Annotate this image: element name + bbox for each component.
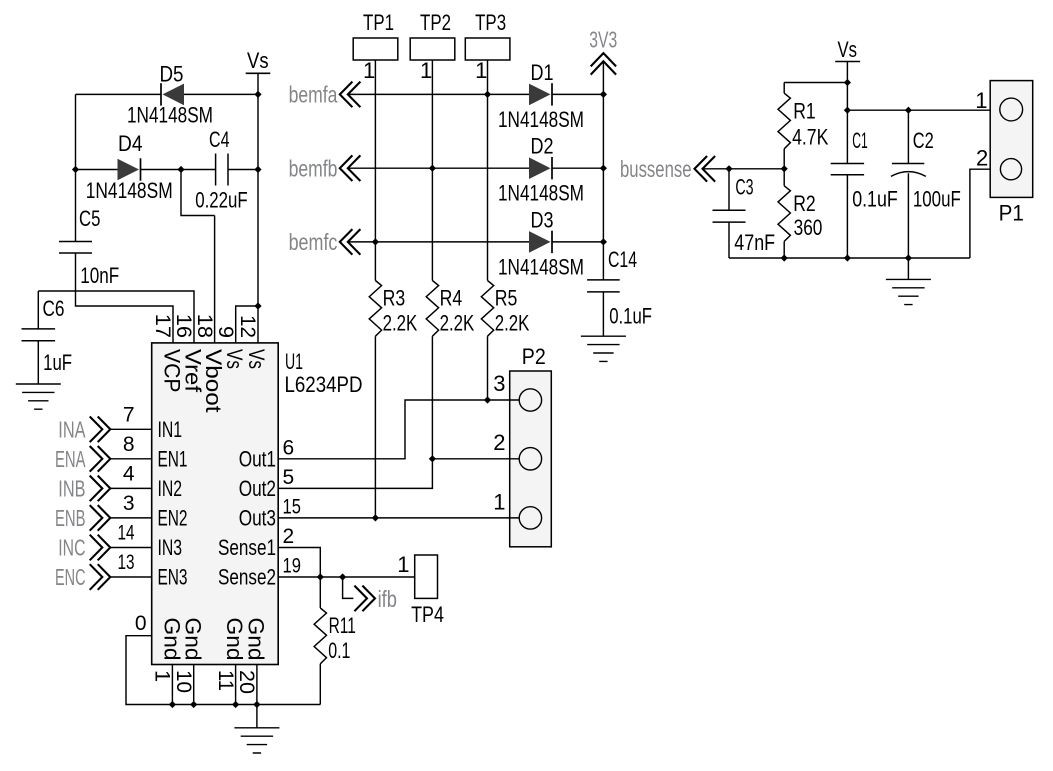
- svg-text:5: 5: [283, 466, 295, 489]
- wire bemfc row right: [552, 241, 603, 243]
- svg-text:8: 8: [123, 433, 135, 456]
- svg-text:C1: C1: [852, 128, 868, 153]
- svg-text:7: 7: [123, 403, 135, 426]
- svg-text:Sense1: Sense1: [218, 535, 276, 560]
- wire 3V3 vertical: [602, 61, 604, 280]
- svg-text:1uF: 1uF: [43, 350, 72, 375]
- svg-text:0.1uF: 0.1uF: [609, 304, 652, 329]
- junction Vs/C4: [254, 166, 261, 173]
- ground (right): [886, 279, 931, 304]
- P2 pin 3 circle: [519, 389, 541, 411]
- svg-text:19: 19: [283, 555, 301, 578]
- svg-text:17: 17: [151, 314, 174, 338]
- svg-text:Gnd: Gnd: [222, 618, 247, 661]
- svg-text:Vs: Vs: [247, 48, 269, 73]
- junction Vs/P1 row: [844, 107, 851, 114]
- svg-text:4.7K: 4.7K: [792, 125, 829, 150]
- svg-text:D1: D1: [531, 60, 554, 85]
- wire R3 to Out3 row: [374, 336, 376, 518]
- resistor R2: [778, 186, 790, 242]
- svg-text:EN3: EN3: [158, 565, 188, 590]
- svg-text:1N4148SM: 1N4148SM: [86, 178, 173, 203]
- svg-text:D5: D5: [160, 62, 184, 87]
- svg-text:R3: R3: [383, 286, 406, 311]
- svg-text:Sense2: Sense2: [218, 565, 276, 590]
- svg-text:0: 0: [135, 612, 147, 635]
- wire INB to IC: [110, 487, 151, 489]
- svg-text:U1: U1: [285, 349, 303, 374]
- wire C3 top: [728, 169, 730, 211]
- svg-text:3: 3: [493, 371, 505, 396]
- svg-text:INC: INC: [58, 535, 85, 561]
- port INA: [90, 417, 111, 443]
- test point TP4: [415, 555, 438, 598]
- svg-text:1: 1: [475, 58, 487, 83]
- wire D5 to Vs: [184, 93, 258, 95]
- wire ENB to IC: [110, 517, 151, 519]
- capacitor C6: [22, 329, 56, 341]
- svg-text:L6234PD: L6234PD: [285, 372, 363, 397]
- power symbol 3V3: [591, 53, 616, 75]
- svg-text:bemfc: bemfc: [289, 229, 338, 255]
- junction 3V3/bemfb: [600, 165, 607, 172]
- junction Gnd pin10: [190, 701, 197, 708]
- wire C2 top: [907, 110, 909, 163]
- wire Vs vertical to pin 12: [257, 73, 259, 343]
- junction Vs/D5: [254, 91, 261, 98]
- svg-text:100uF: 100uF: [913, 187, 961, 212]
- junction R5/P2 pin3: [484, 396, 491, 403]
- junction Vboot branch: [177, 166, 184, 173]
- junction bemfb/TP2: [429, 165, 436, 172]
- wire to R11: [319, 577, 321, 608]
- svg-text:TP2: TP2: [420, 10, 451, 35]
- P1 pin 1 circle: [1000, 98, 1023, 121]
- svg-text:13: 13: [118, 551, 135, 574]
- svg-text:C4: C4: [209, 127, 230, 152]
- wire C6 to pin 16 Vref: [38, 291, 194, 343]
- port bussense: [695, 156, 716, 182]
- wire D4 to C4: [141, 169, 216, 171]
- wire Vs down to C1: [846, 62, 848, 164]
- svg-text:20: 20: [235, 670, 258, 694]
- svg-text:C5: C5: [79, 206, 100, 231]
- junction C2/rail: [905, 254, 912, 261]
- svg-text:12: 12: [236, 315, 259, 338]
- svg-text:2.2K: 2.2K: [383, 311, 418, 336]
- wire Sense2 to TP4: [278, 576, 415, 578]
- svg-text:14: 14: [118, 522, 135, 545]
- wire R11 to ground rail: [319, 664, 321, 705]
- svg-text:Gnd: Gnd: [243, 618, 268, 661]
- junction Sense1/Sense2: [317, 573, 324, 580]
- svg-text:D4: D4: [118, 131, 143, 156]
- wire R5 to Out1 row: [487, 336, 489, 400]
- svg-text:P2: P2: [522, 344, 546, 369]
- port bemfb: [340, 155, 361, 181]
- svg-text:TP4: TP4: [411, 602, 444, 627]
- wire R1 to bussense: [783, 149, 785, 169]
- svg-text:360: 360: [794, 215, 823, 240]
- svg-text:INA: INA: [58, 416, 85, 442]
- svg-text:ifb: ifb: [378, 586, 397, 612]
- svg-text:P1: P1: [999, 201, 1024, 226]
- svg-text:1: 1: [420, 58, 432, 83]
- capacitor C14: [587, 280, 620, 292]
- power symbol Vs (left): [246, 72, 271, 74]
- connector P1 body: [990, 81, 1032, 198]
- junction Gnd pin20: [253, 701, 260, 708]
- test point TP1: [353, 38, 398, 60]
- wire Out2 to P2 pin 2: [278, 459, 519, 489]
- junction C3: [725, 165, 732, 172]
- port bemfa: [340, 82, 361, 108]
- svg-text:1: 1: [397, 552, 409, 577]
- svg-text:C14: C14: [608, 247, 637, 272]
- wire Gnd pin 11: [235, 665, 237, 705]
- svg-text:1: 1: [151, 670, 174, 682]
- junction Vs/R1: [844, 79, 851, 86]
- capacitor C2 (electrolytic): [891, 164, 926, 177]
- ground (under C14): [581, 336, 626, 361]
- wire TP3 column: [487, 60, 489, 281]
- svg-text:1N4148SM: 1N4148SM: [498, 107, 584, 132]
- wire rail to ground: [907, 258, 909, 279]
- svg-text:EN2: EN2: [158, 505, 188, 530]
- wire ENC to IC: [110, 576, 151, 578]
- junction ifb branch: [339, 573, 346, 580]
- svg-text:IN1: IN1: [158, 417, 183, 442]
- svg-text:Vs: Vs: [244, 349, 269, 369]
- P2 pin 2 circle: [519, 448, 541, 470]
- wire ENA to IC: [110, 458, 151, 460]
- wire TP2 column: [431, 60, 433, 281]
- wire P1 pin 2 to rail: [970, 169, 1001, 258]
- svg-text:1N4148SM: 1N4148SM: [498, 254, 584, 279]
- svg-text:1: 1: [363, 58, 375, 83]
- svg-text:15: 15: [283, 495, 301, 518]
- svg-text:4: 4: [123, 462, 135, 485]
- wire bottom rail (right): [729, 257, 970, 259]
- svg-text:R5: R5: [495, 286, 518, 311]
- svg-text:R1: R1: [793, 99, 816, 124]
- svg-text:bussense: bussense: [620, 156, 692, 182]
- wire left vertical to C5: [75, 94, 77, 241]
- resistor R11: [314, 608, 326, 664]
- svg-text:IN3: IN3: [158, 535, 183, 560]
- wire Sense1 jog: [278, 548, 320, 578]
- svg-text:Out3: Out3: [239, 505, 276, 530]
- junction bemfc/TP1: [372, 238, 379, 245]
- junction Gnd pin11: [232, 701, 239, 708]
- port ENB: [90, 505, 111, 531]
- svg-text:3V3: 3V3: [589, 27, 617, 53]
- wire Gnd pin 1: [171, 665, 173, 705]
- junction R4/P2 pin2: [429, 455, 436, 462]
- svg-text:0.22uF: 0.22uF: [195, 188, 248, 213]
- wire C1 bottom: [846, 175, 848, 258]
- wire R2 top stub: [783, 169, 785, 186]
- wire bemfa row left: [348, 93, 529, 95]
- wire to main ground: [256, 705, 258, 728]
- svg-text:47nF: 47nF: [734, 230, 775, 255]
- resistor R5: [481, 281, 493, 337]
- svg-text:2: 2: [283, 525, 295, 548]
- diode D1: [529, 83, 552, 105]
- svg-text:9: 9: [214, 326, 237, 338]
- resistor R4: [426, 281, 438, 337]
- svg-text:1: 1: [975, 88, 987, 113]
- diode D5: [161, 83, 184, 105]
- svg-text:0.1uF: 0.1uF: [852, 187, 898, 212]
- port INC: [90, 535, 111, 561]
- port ENC: [90, 564, 111, 590]
- ground (under C6): [16, 384, 61, 409]
- wire INC to IC: [110, 547, 151, 549]
- svg-text:bemfb: bemfb: [289, 155, 338, 181]
- svg-text:1N4148SM: 1N4148SM: [127, 103, 213, 128]
- port bemfc: [340, 229, 361, 255]
- capacitor C4: [216, 154, 228, 186]
- wire ifb branch: [343, 577, 354, 598]
- svg-text:Gnd: Gnd: [180, 618, 205, 661]
- svg-text:16: 16: [172, 314, 195, 338]
- svg-text:ENB: ENB: [55, 505, 86, 531]
- svg-text:TP3: TP3: [475, 10, 506, 35]
- capacitor C1: [831, 164, 864, 175]
- wire TP1 column: [374, 60, 376, 281]
- diode D4: [118, 158, 141, 180]
- svg-text:R2: R2: [793, 191, 816, 216]
- wire C3 bottom: [728, 222, 730, 258]
- P1 pin 2 circle: [1000, 159, 1021, 180]
- wire C14 to ground: [602, 292, 604, 336]
- wire bemfa row right: [552, 93, 603, 95]
- junction 3V3/bemfc: [600, 238, 607, 245]
- diode D2: [529, 157, 552, 179]
- svg-text:D2: D2: [531, 134, 554, 159]
- svg-text:10: 10: [172, 670, 195, 693]
- port INB: [90, 476, 111, 502]
- wire Gnd pin 10: [193, 665, 195, 705]
- svg-text:2.2K: 2.2K: [495, 311, 530, 336]
- svg-text:ENA: ENA: [55, 446, 86, 472]
- svg-text:IN2: IN2: [158, 476, 183, 501]
- wire C6 to ground: [37, 341, 39, 384]
- capacitor C3: [713, 210, 746, 222]
- wire bemfc row left: [348, 241, 529, 243]
- resistor R1: [778, 93, 790, 149]
- wire Vboot branch to pin 18: [181, 170, 215, 343]
- wire bemfb row right: [552, 167, 603, 169]
- power symbol Vs (right): [835, 61, 860, 63]
- wire C6 top stub: [37, 291, 39, 329]
- svg-text:C3: C3: [735, 175, 753, 200]
- svg-text:C2: C2: [913, 128, 934, 153]
- svg-text:R11: R11: [329, 613, 356, 638]
- svg-text:1N4148SM: 1N4148SM: [498, 181, 584, 206]
- junction C2 top: [905, 107, 912, 114]
- test point TP3: [465, 38, 510, 60]
- svg-text:0.1: 0.1: [328, 638, 350, 663]
- wire to D4: [76, 169, 118, 171]
- P2 pin 1 circle: [519, 507, 541, 529]
- capacitor C5: [59, 242, 92, 254]
- wire pin 0 to ground rail: [126, 636, 320, 705]
- test point TP2: [410, 38, 455, 60]
- diode D3: [529, 231, 552, 253]
- wire INA to IC: [110, 428, 151, 430]
- port ifb: [354, 586, 375, 612]
- wire C2 bottom: [907, 173, 909, 258]
- connector P2 body: [510, 371, 552, 547]
- svg-text:2.2K: 2.2K: [440, 311, 475, 336]
- port ENA: [90, 446, 111, 472]
- svg-text:EN1: EN1: [158, 446, 188, 471]
- wire D5 anode side: [76, 93, 161, 95]
- wire Gnd pin 20: [256, 665, 258, 705]
- junction bemfa/TP3: [484, 91, 491, 98]
- svg-text:2: 2: [493, 430, 505, 455]
- wire R4 to Out2 row: [431, 336, 433, 459]
- junction 3V3/bemfa: [600, 91, 607, 98]
- wire R2 to rail: [783, 241, 785, 258]
- svg-text:Vs: Vs: [838, 37, 858, 62]
- wire C4 to Vs: [228, 169, 258, 171]
- junction R1/R2: [781, 165, 788, 172]
- svg-text:2: 2: [976, 146, 988, 171]
- svg-text:3: 3: [123, 492, 135, 515]
- svg-text:ENC: ENC: [55, 564, 86, 590]
- op-amp U1 L6234PD body: [152, 343, 279, 665]
- svg-text:bemfa: bemfa: [289, 82, 338, 108]
- wire pin 9 stub to Vs: [236, 306, 258, 343]
- svg-text:18: 18: [193, 314, 216, 338]
- svg-text:C6: C6: [43, 296, 65, 321]
- svg-text:11: 11: [214, 670, 237, 691]
- wire C5 to pin 17 VCP: [76, 253, 174, 343]
- wire bussense row: [703, 168, 785, 170]
- svg-text:D3: D3: [531, 207, 554, 232]
- svg-text:TP1: TP1: [363, 10, 394, 35]
- wire Out1 to P2 pin 3: [278, 400, 519, 459]
- svg-text:INB: INB: [58, 476, 85, 502]
- junction D4 anode: [72, 166, 79, 173]
- svg-text:6: 6: [283, 436, 295, 459]
- junction R3/P2 pin1: [372, 514, 379, 521]
- ground (main): [234, 728, 279, 753]
- svg-text:R4: R4: [440, 286, 463, 311]
- junction C1/rail: [844, 254, 851, 261]
- wire to P1 pin 1: [847, 109, 999, 111]
- svg-text:10nF: 10nF: [80, 263, 119, 288]
- junction Gnd pin1: [169, 701, 176, 708]
- junction R2/rail: [781, 254, 788, 261]
- svg-text:Out2: Out2: [239, 476, 276, 501]
- wire Vs to R1: [784, 83, 847, 94]
- svg-text:1: 1: [493, 490, 505, 515]
- junction Vs/pin9 stub: [254, 302, 261, 309]
- svg-text:Out1: Out1: [239, 446, 276, 471]
- resistor R3: [369, 281, 381, 337]
- wire bemfb row left: [348, 167, 529, 169]
- wire Out3 to P2 pin 1: [278, 517, 519, 519]
- svg-text:Vs: Vs: [222, 349, 247, 369]
